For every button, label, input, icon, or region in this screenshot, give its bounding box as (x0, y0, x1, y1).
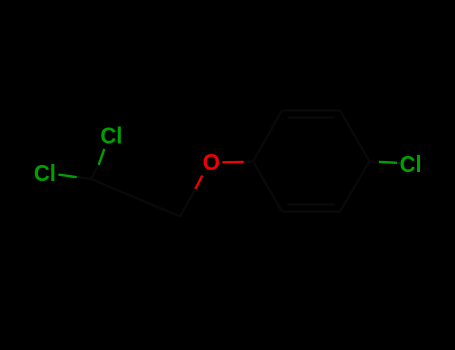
wire ring-Cl right bond green half (379, 161, 397, 164)
wire chain bond CH2 to CCl2 carbon (91, 179, 180, 217)
wire C-Cl left bond black half (77, 177, 91, 179)
svg-text:Cl: Cl (100, 122, 122, 148)
wire ring edge TR-R (340, 111, 370, 162)
svg-text:Cl: Cl (400, 151, 422, 177)
wire C-Cl left bond green half (58, 175, 76, 178)
wire O-ring bond red half (222, 161, 243, 164)
wire C-Cl top bond black half (91, 165, 99, 179)
wire ring edge L-TL (253, 111, 282, 162)
wire O-CH2 bond red half (195, 176, 202, 190)
svg-text:Cl: Cl (34, 160, 56, 186)
wire aromatic inner line top (288, 116, 335, 118)
wire ring edge BL-L (253, 161, 282, 211)
wire ring-Cl right bond black half (370, 160, 380, 163)
wire O-CH2 bond black half (180, 189, 195, 217)
wire aromatic inner line bottom (288, 203, 335, 205)
benzene ring C6H4 (253, 111, 370, 212)
wire ring edge R-BR (340, 161, 370, 211)
svg-text:O: O (203, 149, 220, 175)
wire ring edge TL-TR (282, 109, 340, 111)
wire C-Cl top bond green half (99, 149, 105, 165)
wire O-ring bond black half (244, 160, 253, 163)
wire ring edge BR-BL (282, 210, 340, 212)
